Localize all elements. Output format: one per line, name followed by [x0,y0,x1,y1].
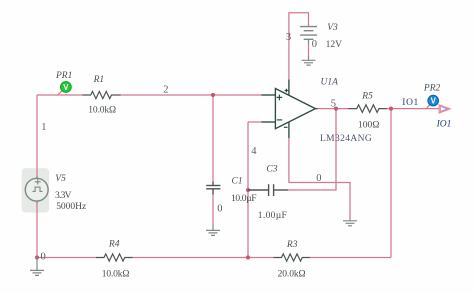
svg-text:10.0µF: 10.0µF [231,194,257,204]
svg-text:0: 0 [41,251,46,262]
svg-text:U1A: U1A [321,77,339,87]
svg-text:1: 1 [41,122,46,133]
svg-text:20.0kΩ: 20.0kΩ [278,270,306,280]
svg-text:2: 2 [163,84,168,95]
svg-text:V5: V5 [55,174,66,184]
svg-text:V: V [431,97,437,106]
svg-text:0: 0 [312,39,317,50]
svg-text:R3: R3 [286,240,298,250]
svg-text:R5: R5 [361,91,373,101]
svg-text:C3: C3 [266,165,277,175]
svg-text:V: V [63,83,69,92]
svg-text:3.3V: 3.3V [55,191,72,201]
svg-text:PR2: PR2 [423,83,441,93]
svg-text:4: 4 [251,146,257,157]
svg-text:R1: R1 [93,75,105,85]
svg-text:3: 3 [286,32,291,43]
svg-text:IO1: IO1 [402,98,418,108]
svg-text:100Ω: 100Ω [358,120,380,130]
svg-text:0: 0 [316,173,321,184]
svg-text:1.00µF: 1.00µF [258,211,287,221]
svg-text:5: 5 [331,99,336,110]
svg-text:V3: V3 [327,23,338,33]
svg-text:R4: R4 [108,239,120,249]
svg-text:12V: 12V [326,40,343,50]
svg-text:IO1: IO1 [436,119,452,129]
svg-text:10.0kΩ: 10.0kΩ [102,270,130,280]
svg-text:PR1: PR1 [55,71,72,81]
svg-text:LM324ANG: LM324ANG [320,134,372,144]
svg-text:5000Hz: 5000Hz [56,202,86,212]
svg-text:10.0kΩ: 10.0kΩ [88,106,116,116]
svg-text:C1: C1 [232,177,243,187]
svg-text:0: 0 [217,204,222,215]
